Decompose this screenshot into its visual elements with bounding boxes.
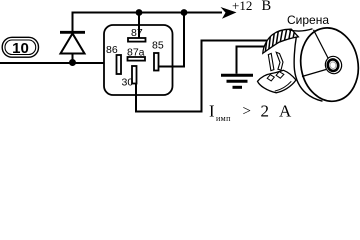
- junction dot: diode anode on wire: [69, 59, 76, 66]
- +12V arrowhead: [221, 7, 237, 19]
- wire: siren (-) to ground: [237, 47, 266, 74]
- siren: cone line top: [314, 30, 329, 58]
- svg-text:Сирена: Сирена: [287, 13, 329, 27]
- wire: pin 30 to siren (+): [136, 41, 268, 112]
- wire: +12V to pin 87: [138, 13, 140, 39]
- relay K1 body: [104, 25, 173, 95]
- svg-text:имп: имп: [216, 114, 231, 123]
- relay pin 87 pad: [128, 38, 146, 42]
- svg-text:>: >: [243, 104, 251, 120]
- siren: mounting foot: [258, 70, 297, 93]
- diode VD1: [60, 32, 85, 53]
- svg-text:2: 2: [261, 102, 270, 121]
- wire: top +12V rail: [73, 13, 223, 64]
- svg-text:В: В: [262, 0, 272, 14]
- label Iимп > 2 А: [209, 102, 292, 124]
- relay pin 86 pad: [117, 55, 122, 74]
- siren: horn body top silhouette: [289, 29, 313, 31]
- svg-text:85: 85: [152, 40, 164, 52]
- node "10" output oval: [2, 37, 38, 57]
- siren: horn bell rim: [295, 23, 360, 106]
- svg-text:+12: +12: [232, 0, 252, 13]
- junction dot: pin 87 branch: [136, 9, 143, 16]
- svg-text:87a: 87a: [127, 47, 145, 59]
- wire: output 10 to relay pin 86: [0, 62, 117, 64]
- siren: cone line bottom: [302, 70, 326, 77]
- svg-text:87: 87: [131, 27, 143, 39]
- siren: throat rings: [323, 55, 343, 76]
- siren: mounting bracket straps: [268, 52, 283, 70]
- relay pin 30 pad: [132, 66, 137, 84]
- ground symbol: [221, 75, 253, 87]
- siren: horn body bottom silhouette: [294, 36, 322, 101]
- svg-text:А: А: [279, 102, 292, 121]
- svg-text:10: 10: [12, 40, 29, 57]
- junction dot: pin 85 branch: [181, 9, 188, 16]
- relay pin 87a pad: [128, 57, 146, 61]
- siren: driver band with ribs: [263, 28, 299, 53]
- svg-text:86: 86: [106, 44, 118, 56]
- svg-text:I: I: [209, 102, 215, 121]
- svg-text:30: 30: [122, 77, 134, 89]
- wire: pin 85 to +12V rail: [158, 13, 184, 67]
- relay pin 85 pad: [154, 53, 159, 71]
